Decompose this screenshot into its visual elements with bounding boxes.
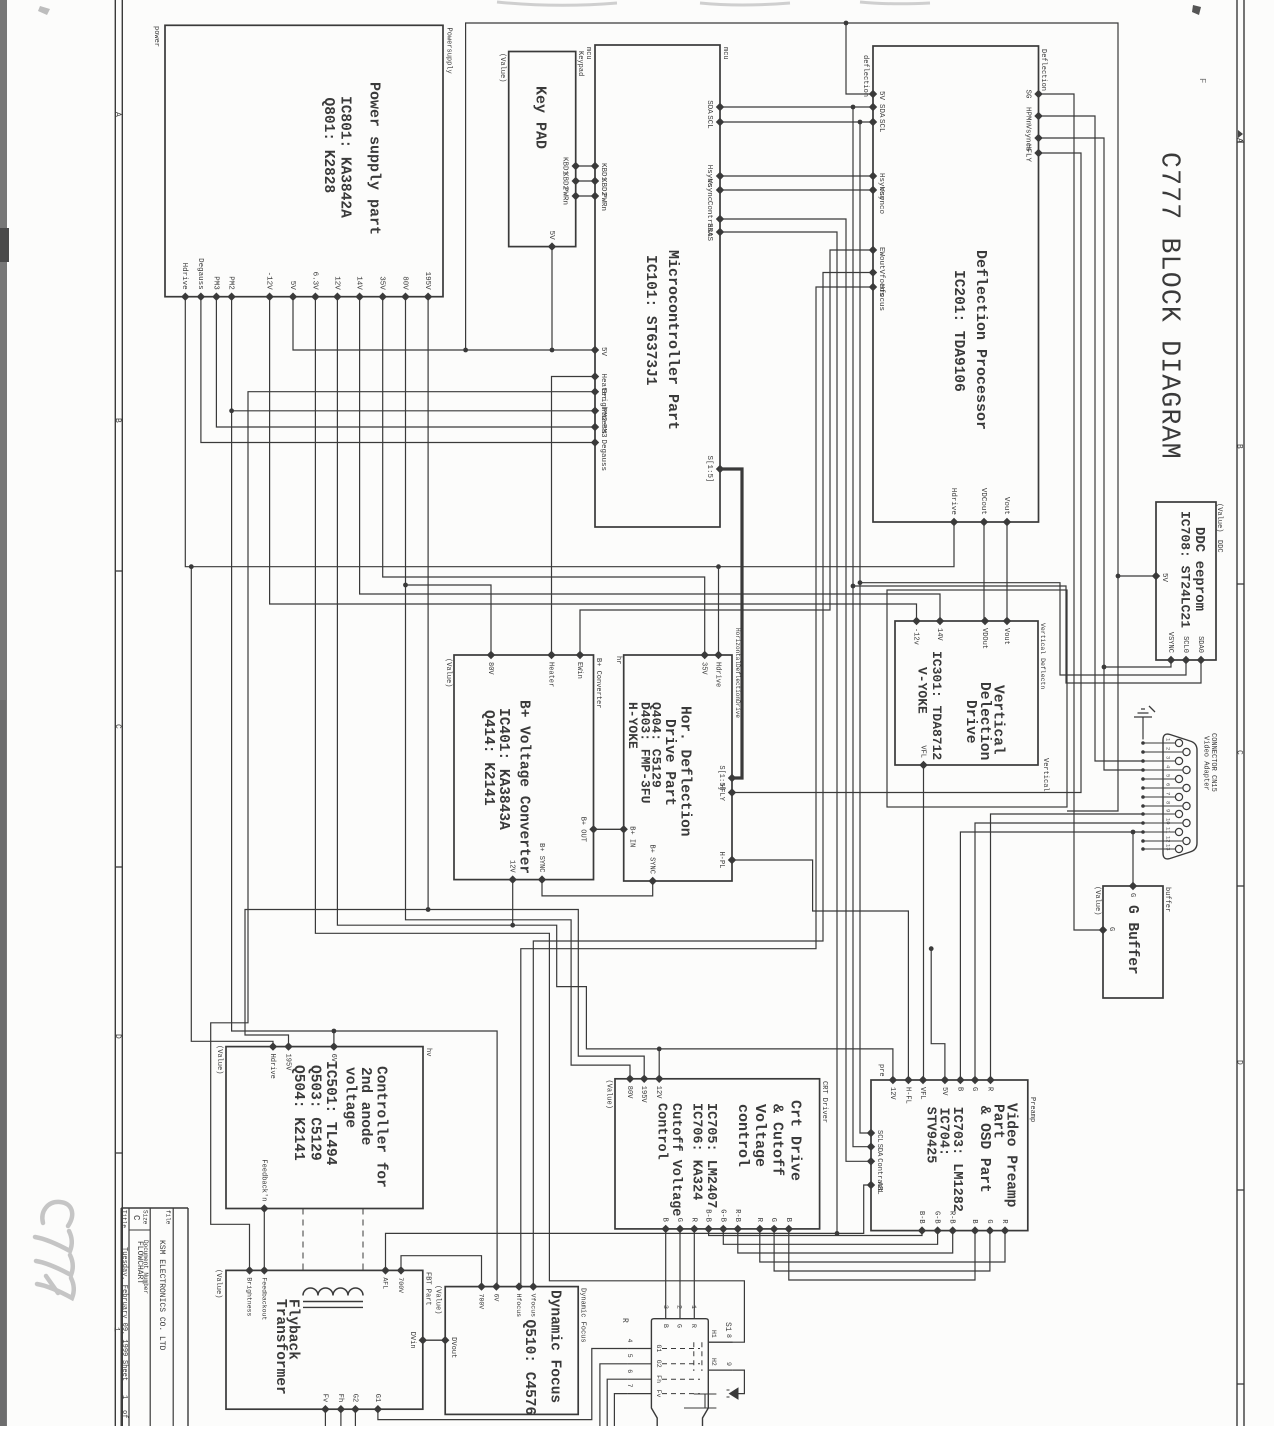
svg-text:HFLY: HFLY [1023,144,1031,163]
svg-text:VFL: VFL [918,1087,926,1100]
svg-text:B: B [784,1218,792,1222]
connector pin circle 4 [1183,766,1190,773]
junction 5V riser [463,348,468,353]
Controller pin Hdrive [269,1042,277,1050]
Preamp pin 5V [941,1076,949,1084]
svg-text:file: file [165,1210,172,1225]
DDC pin 5V [1152,572,1160,580]
svg-text:G: G [675,1218,683,1222]
wire SDA branch to DDC [853,586,1201,683]
socket dashed line Fh [662,1378,700,1380]
svg-text:pre: pre [877,1064,885,1077]
wire Vsync [720,189,873,191]
svg-text:SDA: SDA [877,104,885,118]
svg-text:Vsync: Vsync [705,179,713,202]
wire Hdrive to controller [191,567,273,1047]
wire KBD link y=166 [576,165,595,167]
wire R jumper [760,1229,1005,1262]
wire 195V rail [427,297,429,910]
svg-text:IC201: TDA9106: IC201: TDA9106 [950,270,966,392]
V-Drive pin VDOut [981,617,989,625]
svg-text:Powersupply: Powersupply [444,28,452,74]
svg-text:Hdrive: Hdrive [949,488,957,515]
svg-text:H2: H2 [710,1358,717,1366]
Deflection pin 5V [869,90,877,98]
svg-text:B-B: B-B [704,1209,712,1222]
HorDefl pin HFLY [728,788,736,796]
svg-text:DVin: DVin [408,1332,416,1349]
PSU pin 12V [333,293,341,301]
svg-text:Drive: Drive [962,700,978,744]
wire B+ SYNC [542,880,653,896]
svg-text:Transformer: Transformer [272,1299,288,1395]
DDC pin VSYNC [1167,656,1175,664]
connector pin circle 8 [1183,802,1190,809]
connector pin 3 stub [1143,760,1175,762]
svg-text:Deflection: Deflection [1039,49,1047,91]
svg-text:7: 7 [626,1384,633,1388]
wire G jumper [774,1229,990,1271]
svg-text:5V: 5V [1160,573,1168,583]
svg-text:5V: 5V [877,91,885,101]
svg-text:(Value): (Value) [498,53,506,82]
svg-text:Q504: K2141: Q504: K2141 [290,1065,306,1161]
Preamp pin H-FL [904,1076,912,1084]
svg-text:Cutoff Voltage: Cutoff Voltage [668,1103,683,1216]
MCU pin Vsync [716,186,724,194]
B+ pin Heater [547,651,555,659]
svg-text:B+ Converter: B+ Converter [594,658,602,708]
DynFocus pin 6V [492,1282,500,1290]
Flyback pin AFL [381,1266,389,1274]
MCU pin Contrast [716,215,724,223]
wire KBD link y=196 [576,195,595,197]
wire CRT B to socket [665,1229,667,1319]
wire PM2 [232,297,595,411]
svg-text:Voltage: Voltage [751,1104,768,1167]
svg-text:195V: 195V [423,272,431,291]
G-buffer pin G top [1129,882,1137,890]
svg-text:Tuesday, February 09, 1999: Tuesday, February 09, 1999 [120,1247,128,1356]
svg-text:G-B: G-B [933,1211,941,1224]
wire 5V rail [293,297,595,350]
svg-text:195V: 195V [639,1086,647,1104]
wire PM2 extension to dynamic focus [232,411,498,1287]
svg-text:-12v: -12v [912,628,920,645]
wire Hdrive to HorDefl [718,567,720,655]
block Q510 Dynamic Focus [445,1287,578,1415]
wire Fv socket side [614,1394,628,1426]
svg-text:DVout: DVout [449,1337,457,1358]
svg-text:G: G [1128,893,1136,897]
svg-text:11: 11 [1165,827,1172,834]
svg-text:SCL: SCL [877,119,885,133]
svg-text:Q801: K2828: Q801: K2828 [320,98,336,194]
svg-text:IC101: ST6373J1: IC101: ST6373J1 [642,255,658,386]
wire 5V to DDC [1118,575,1156,577]
junction SRAS/ABL [835,1231,840,1236]
svg-text:80V: 80V [625,1086,633,1099]
sheet border left double line [114,0,116,1426]
svg-text:power: power [152,26,160,47]
ground symbol at H2 [733,1370,745,1394]
junction PM2 extension [229,408,234,413]
svg-text:R: R [690,1324,697,1328]
svg-text:VFL: VFL [919,745,927,758]
wire G2 down [354,1409,356,1426]
Preamp pin B-B [918,1226,926,1234]
svg-text:Control: Control [653,1103,668,1160]
svg-text:Key PAD: Key PAD [531,86,548,149]
Preamp pin R [986,1076,994,1084]
wire R-B jumper [738,1229,953,1253]
wire CRT R to socket [693,1229,695,1319]
Flyback pin Brightness [245,1266,253,1274]
svg-text:B+ IN: B+ IN [628,826,636,847]
wire Fh down [340,1409,342,1426]
wire Hfocus [521,287,873,1287]
right border arrow mark [1238,130,1243,138]
svg-text:& OSD Part: & OSD Part [976,1106,992,1193]
svg-text:R-B: R-B [948,1211,956,1224]
connector pin 6 stub [1143,787,1183,789]
junction Hdrive HorDefl [716,564,721,569]
socket pin 8 H1 [708,1341,732,1343]
svg-text:6.3V: 6.3V [310,272,318,291]
svg-text:SDA0: SDA0 [1196,636,1204,653]
MCU pin PM2 [591,407,599,415]
block IC101 Microcontroller Part [595,45,720,527]
right border zone tick y=584 [1237,583,1244,585]
right border zone tick y=886 [1237,885,1244,887]
wire Vfocus [533,273,873,1287]
B+ pin EWin [576,651,584,659]
block IC801 Power supply part [165,25,443,296]
svg-text:B: B [113,418,122,423]
wire KBD link y=181 [576,180,595,182]
svg-text:Vfocus: Vfocus [530,1294,537,1318]
svg-text:G: G [1107,927,1115,931]
svg-text:Q503: C5129: Q503: C5129 [307,1065,323,1161]
svg-text:EWout: EWout [877,247,885,270]
svg-text:B-B: B-B [917,1211,925,1224]
svg-text:Fv: Fv [655,1390,662,1398]
PSU pin -12V [265,293,273,301]
svg-text:FBT Part: FBT Part [424,1272,432,1306]
svg-text:Brightness: Brightness [246,1277,253,1316]
svg-text:PWRn: PWRn [561,187,569,205]
KeyPAD pin 5V bottom [548,242,556,250]
wire 5V keypad drop [551,247,553,350]
MCU pin PM3 [591,423,599,431]
wire 12V CRT stub [658,1049,660,1079]
wire Vsyncs [1039,138,1144,770]
HorDefl pin S[1:5] [728,774,736,782]
wire G buffer feed [1132,832,1134,886]
wire G-B jumper [723,1229,937,1244]
wire Fh socket side [607,1379,628,1426]
Deflection pin HPMn [1034,112,1042,120]
connector pin 1 stub [1143,742,1175,744]
stray mark top-right b [1192,5,1201,15]
socket pin 7 Fv [628,1393,652,1395]
CRT-drive pin R [756,1225,764,1233]
Preamp pin B [956,1076,964,1084]
block IC501 Controller for 2nd anode voltage [226,1047,423,1209]
svg-text:A: A [113,112,122,117]
CRT-drive pin R [690,1225,698,1233]
svg-text:7: 7 [1165,792,1172,795]
KeyPAD pin PWRn [572,192,580,200]
CRT-drive pin G [676,1225,684,1233]
wire 14V [360,297,940,621]
svg-text:700V: 700V [478,1294,485,1310]
svg-text:C: C [1235,750,1244,755]
svg-text:Fh: Fh [336,1394,344,1402]
svg-text:HFLY: HFLY [717,784,725,802]
CRT-drive pin 12V [655,1075,663,1083]
svg-text:C777 BLOCK DIAGRAM: C777 BLOCK DIAGRAM [1155,152,1185,460]
svg-text:PM2: PM2 [227,276,235,290]
svg-text:PWRn: PWRn [599,193,607,211]
B+ pin B+ OUT [589,825,597,833]
HorDefl pin B+ SYNC [649,877,657,885]
svg-text:2: 2 [1165,747,1172,750]
wire 12V rail [337,297,893,1080]
junction SCL at x860 [858,120,863,125]
svg-text:5V: 5V [940,1087,948,1096]
svg-text:10: 10 [1165,818,1172,825]
Deflection pin VDCout [980,518,988,526]
svg-text:VSYNC: VSYNC [1166,632,1174,653]
svg-text:B+ Voltage Converter: B+ Voltage Converter [516,700,532,874]
wire connector G to preamp [975,823,1143,1080]
svg-text:35V: 35V [378,276,386,290]
svg-text:PM2: PM2 [599,408,607,422]
KeyPAD pin KBD2 [572,177,580,185]
svg-text:2: 2 [675,1305,682,1309]
HorDefl pin 35V [701,651,709,659]
socket heater dashes [693,1342,695,1371]
stray mark top-left [38,6,50,15]
block IC401 B+ Voltage Converter [454,655,594,880]
svg-text:B+ SYNC: B+ SYNC [537,843,545,872]
svg-text:VDOut: VDOut [980,628,988,649]
svg-text:5: 5 [1165,774,1172,777]
wire Hdrive rail [185,297,954,567]
svg-text:SG: SG [1023,90,1031,100]
svg-text:6: 6 [1165,783,1172,786]
junction 80V B+ branch [403,583,408,588]
svg-text:(Value): (Value) [1093,886,1101,915]
wire SG to G buffer [1039,94,1104,930]
stray smudge top edge [497,2,930,5]
Flyback pin Feedbackout [260,1266,268,1274]
svg-text:buffer: buffer [1163,887,1171,912]
socket dashed line G2 [662,1363,700,1365]
svg-text:G1: G1 [655,1345,662,1353]
connector pin 4 stub [1143,769,1183,771]
svg-text:Keypad: Keypad [576,51,584,76]
wire SCL vertical rail x860 [860,122,871,1133]
svg-text:Vertical Deflectn: Vertical Deflectn [1039,623,1046,689]
PSU pin PM3 [212,293,220,301]
wire PM3 [216,297,595,427]
Deflection pin Vsyncs [1034,134,1042,142]
wire HPMn to connector [1039,116,1144,761]
MCU pin 5V [591,346,599,354]
Preamp pin SCL [867,1129,875,1137]
Deflection pin Vout [1003,518,1011,526]
MCU pin S[1:5] [716,465,724,473]
PSU pin PM2 [227,293,235,301]
wire EW deflection to B+ [580,250,873,655]
Controller pin Feedback [260,1204,268,1212]
svg-text:VDCout: VDCout [979,488,987,515]
connector pin 11 stub [1143,831,1175,833]
junction Vsyncs DDC [1102,665,1107,670]
wire 35V [383,297,705,655]
svg-text:Vertical: Vertical [1041,758,1049,792]
svg-text:Hdrive: Hdrive [268,1054,276,1079]
svg-text:H1: H1 [710,1330,717,1338]
junction 12V CRT drive [657,1047,662,1052]
svg-text:14V: 14V [935,628,943,641]
dashed link 1 [302,1209,304,1271]
wire DDC VSYNC [1104,660,1171,667]
block IC708 DDC eeprom [1156,502,1216,660]
junction controller 6V [332,1029,337,1034]
V-Drive pin VFL [919,761,927,769]
wire Fv down [324,1409,326,1426]
svg-text:H-YOKE: H-YOKE [625,702,640,749]
socket dashed line G1 [662,1348,700,1350]
svg-text:H-FL: H-FL [903,1087,911,1104]
MCU pin Hsync [716,172,724,180]
title block divider size cell [129,1229,150,1231]
svg-text:80V: 80V [486,662,494,675]
svg-text:AFL: AFL [382,1277,389,1289]
svg-text:12V: 12V [888,1087,896,1100]
svg-text:& Cutoff: & Cutoff [769,1104,786,1176]
wire ABL flyback to preamp [386,1185,872,1270]
wire G2 socket side [600,1364,628,1426]
svg-text:B+ SYNC: B+ SYNC [648,845,656,874]
connector pin circle 13 [1175,845,1182,852]
HorDefl pin H-PL [728,856,736,864]
svg-text:5: 5 [626,1354,633,1358]
svg-text:Vout: Vout [1002,497,1010,515]
CRT socket body [651,1319,708,1426]
socket pin 6 Fh [628,1378,652,1380]
svg-text:Dynamic Focus: Dynamic Focus [547,1290,563,1403]
svg-text:G: G [769,1218,777,1222]
PSU pin Degauss [197,293,205,301]
wire Degauss [201,297,595,443]
connector pin 10 stub [1143,822,1183,824]
svg-text:195V: 195V [284,1054,292,1072]
junction G buffer feed [1131,830,1136,835]
svg-text:5V: 5V [599,347,607,357]
svg-text:-12V: -12V [265,272,273,291]
svg-text:4: 4 [626,1339,633,1343]
svg-text:12V: 12V [508,860,516,873]
junction SDA at x853 [851,105,856,110]
svg-text:Heater: Heater [547,662,555,687]
wire Hsync [720,175,873,177]
DDC pin SDA0 [1197,656,1205,664]
wire Contrast MCU down to preamp [720,219,871,1161]
CRT-drive pin G-B [719,1225,727,1233]
B+ pin 12V [509,875,517,883]
junction Hdrive controller [189,564,194,569]
svg-text:R-B: R-B [733,1209,741,1222]
wire B+ OUT to B+ IN [594,828,624,830]
DDC pin SCL0 [1182,656,1190,664]
svg-text:STV9425: STV9425 [922,1107,937,1164]
sheet border right double line [1236,0,1238,1426]
svg-text:Controller for: Controller for [373,1066,389,1188]
svg-text:IC501: TL494: IC501: TL494 [322,1061,338,1166]
wire -12V [270,297,917,621]
CRT-drive pin B-B [704,1225,712,1233]
svg-text:Degauss: Degauss [599,440,607,472]
svg-text:B+ OUT: B+ OUT [579,817,587,842]
svg-text:Hdrive: Hdrive [180,263,188,290]
svg-text:B: B [970,1219,978,1223]
V-Drive pin Vout [1003,617,1011,625]
connector pin 13 stub [1143,848,1175,850]
svg-text:14V: 14V [355,276,363,290]
svg-text:6: 6 [626,1369,633,1373]
connector pin 12 stub [1143,840,1183,842]
connector pin circle 12 [1183,837,1190,844]
B+ pin B+ SYNC [538,875,546,883]
svg-text:S1: S1 [723,1322,732,1332]
connector pin circle 5 [1175,775,1182,782]
svg-text:voltage: voltage [342,1067,358,1128]
svg-text:(Value): (Value) [444,658,452,687]
DynFocus pin DVout [441,1336,449,1344]
svg-text:Degauss: Degauss [196,258,204,290]
wire SDA vertical rail x853 [853,107,871,1147]
svg-text:of: of [120,1410,128,1418]
svg-text:Q414: K2141: Q414: K2141 [480,710,496,806]
junction 12V B+ drop [510,923,515,928]
CRT-drive pin B [662,1225,670,1233]
block Hor Deflection Drive Part [624,655,732,881]
Deflection pin Hsynco [869,172,877,180]
wire VDCout [983,522,985,621]
svg-text:B: B [955,1087,963,1091]
connector pin circle 2 [1183,748,1190,755]
junction 195V [426,907,431,912]
Preamp pin R-B [949,1226,957,1234]
right border zone tick y=142 [1237,141,1244,143]
svg-text:hr: hr [614,656,622,664]
wire G1 to socket [378,1349,628,1420]
Preamp pin G [986,1226,994,1234]
CRT-drive pin G [770,1225,778,1233]
junction 5V keypad [550,348,555,353]
CRT-drive pin 80V [626,1075,634,1083]
svg-text:A: A [1235,138,1244,143]
Preamp pin G [971,1076,979,1084]
Preamp pin B [971,1226,979,1234]
svg-text:(Value): (Value) [605,1080,613,1109]
svg-text:IC301: TDA8712: IC301: TDA8712 [929,651,944,760]
junction 5V DDC branch [1116,574,1121,579]
